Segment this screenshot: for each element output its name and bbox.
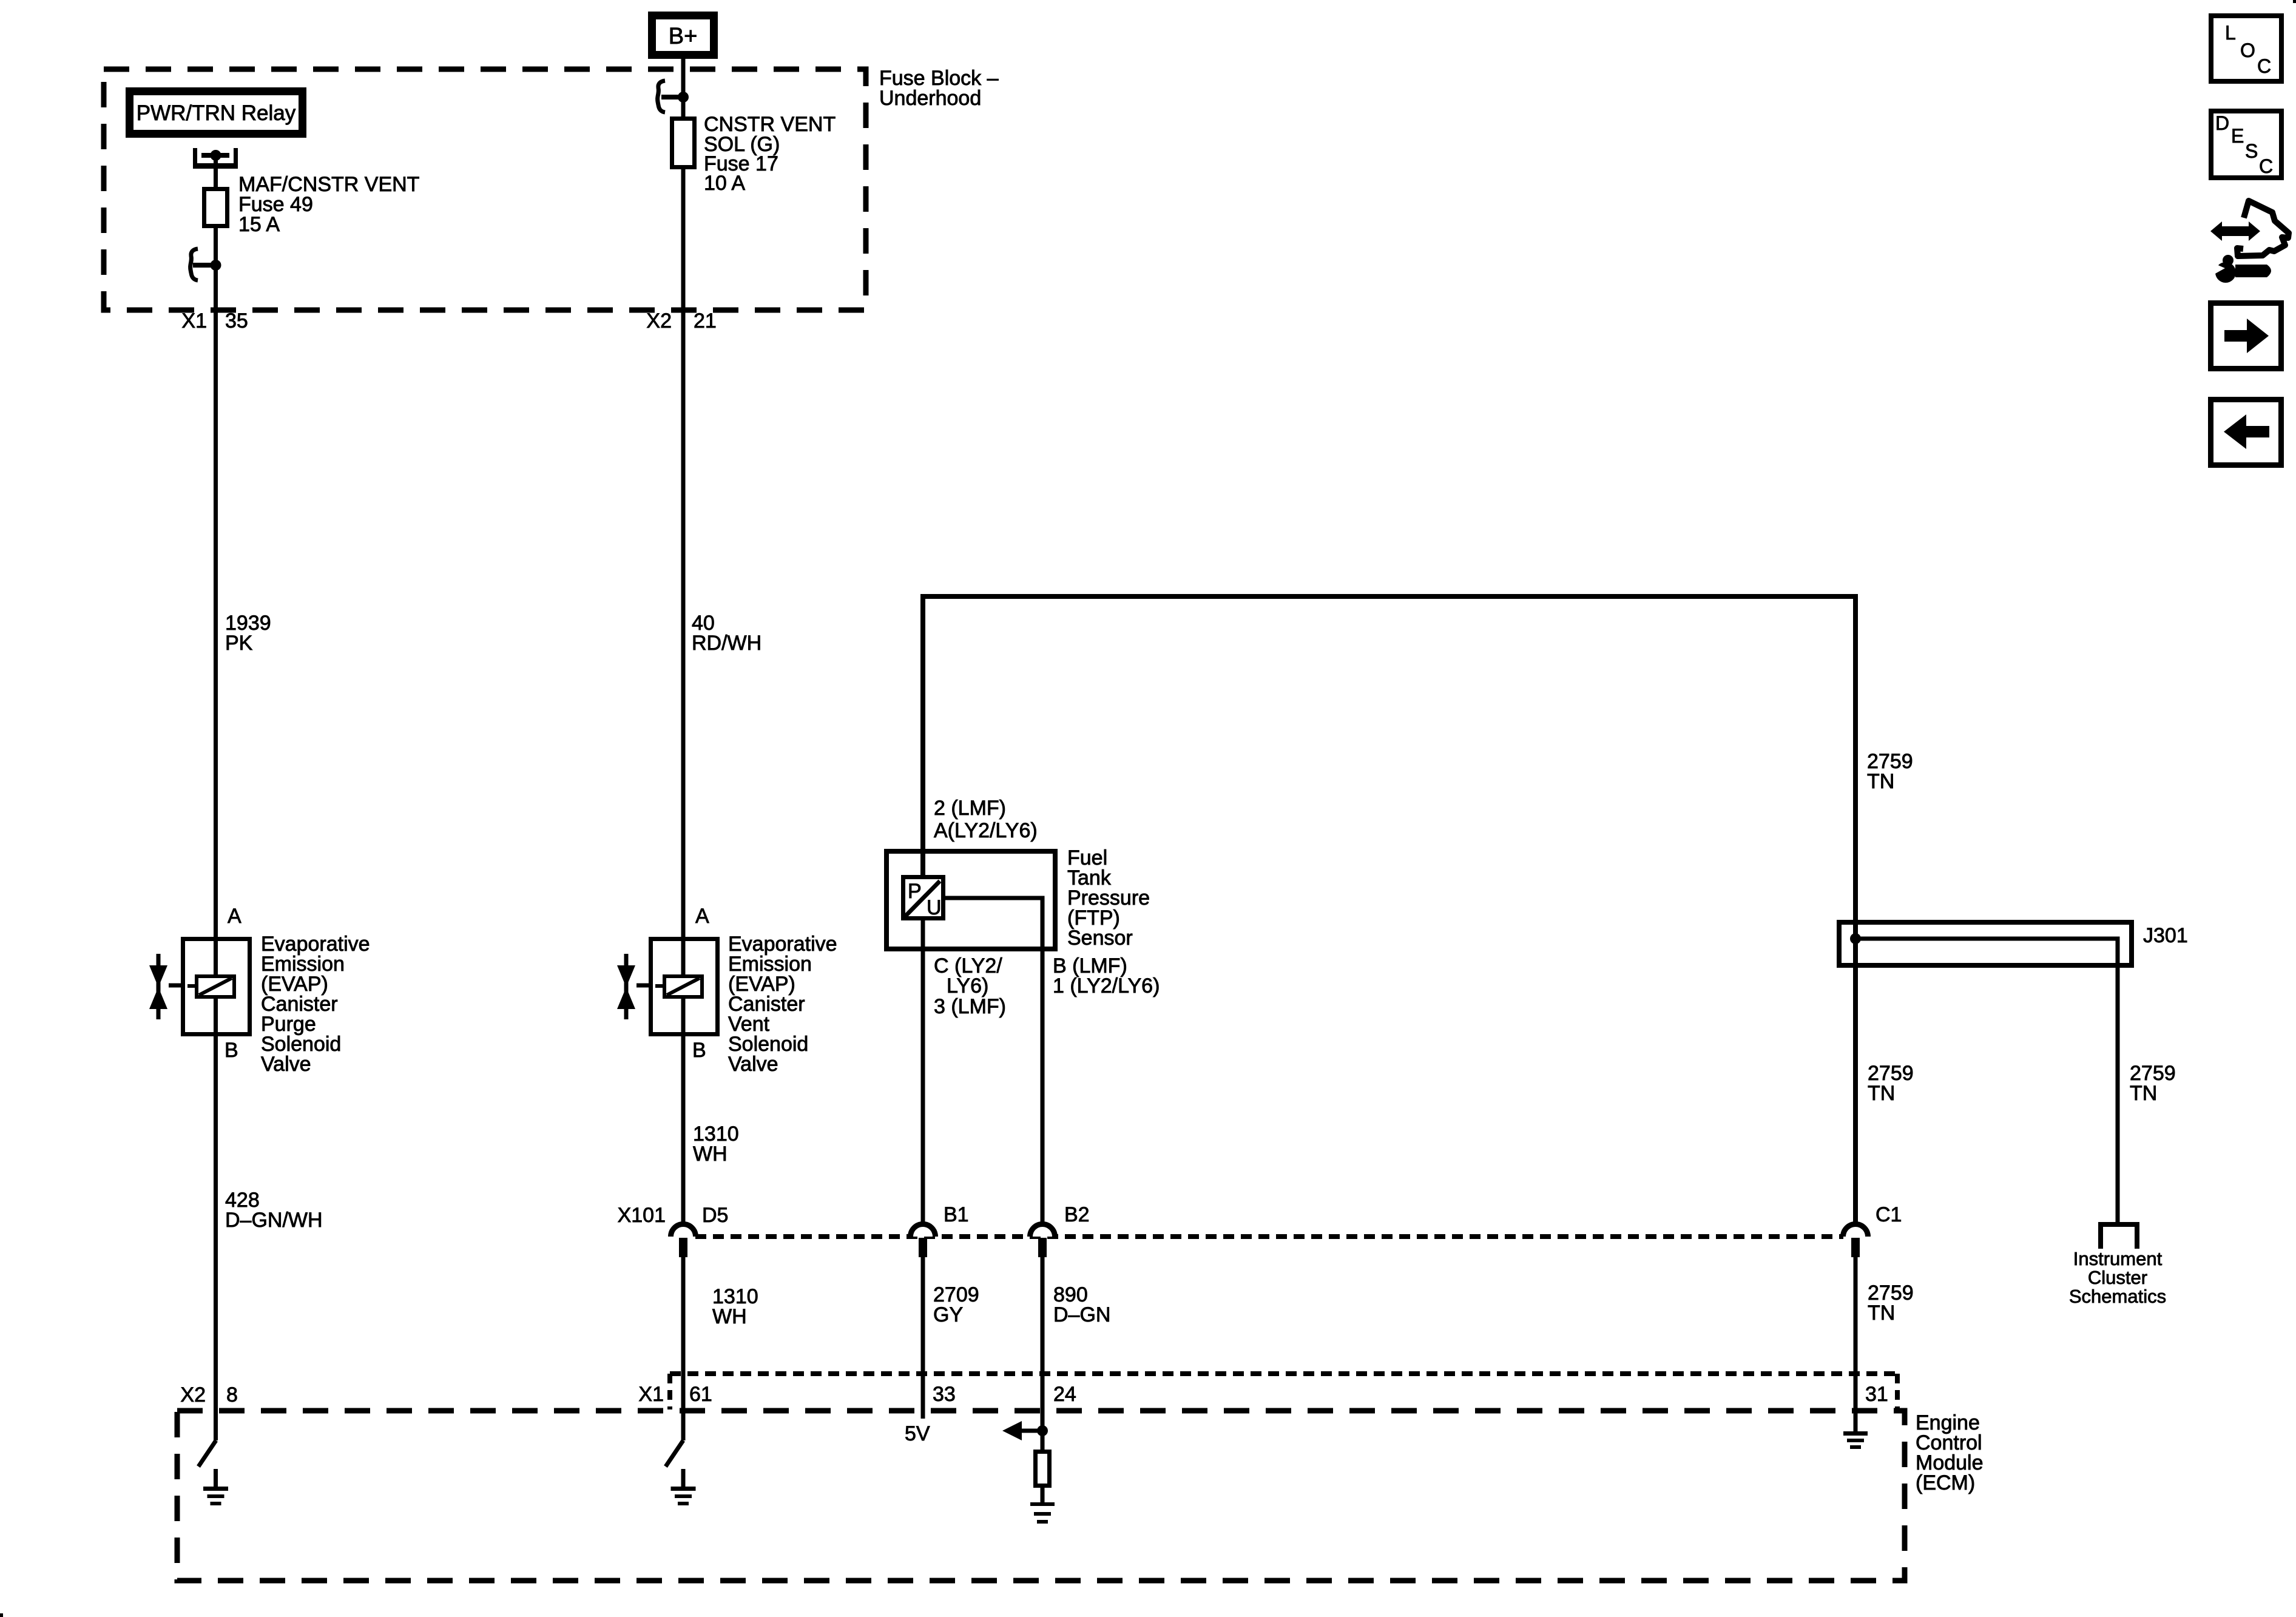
FTP connector terminal B1	[911, 1224, 936, 1257]
purge solenoid coil	[197, 976, 234, 997]
svg-text:61: 61	[689, 1383, 712, 1406]
fuse block underhood dashed box	[104, 69, 866, 310]
svg-text:B1: B1	[944, 1203, 969, 1226]
ECM X1 connector dotted right tick	[1895, 1374, 1900, 1409]
svg-text:31: 31	[1865, 1383, 1888, 1406]
svg-text:X2: X2	[646, 309, 672, 333]
svg-text:B+: B+	[669, 24, 698, 49]
purge valve pinch symbol	[149, 954, 195, 1019]
fuse 17 CNSTR VENT SOL	[672, 119, 695, 167]
ECM internal switch to ground X2-8	[198, 1440, 216, 1487]
ground symbol under resistor	[1030, 1502, 1055, 1524]
wire 1310 WH from X101 to ECM X1-61	[681, 1247, 686, 1440]
svg-text:8: 8	[226, 1383, 238, 1406]
svg-text:J301: J301	[2143, 924, 2188, 947]
B+ battery feed terminal box	[648, 12, 718, 59]
wire 40 RD/WH from fuse 17 to EVAP vent valve pin A	[681, 169, 686, 998]
svg-text:35: 35	[225, 309, 248, 333]
svg-text:X1: X1	[181, 309, 207, 333]
wiring repair icon: double arrow	[2210, 221, 2260, 241]
svg-text:Valve: Valve	[728, 1053, 778, 1076]
svg-text:TN: TN	[2130, 1082, 2157, 1105]
wire resistor to ground	[1041, 1485, 1045, 1503]
wire from B+ to CNSTR VENT fuse 17	[681, 59, 686, 116]
fuse 49 MAF/CNSTR VENT	[204, 189, 228, 226]
ground symbol under X1-61	[671, 1487, 696, 1505]
svg-text:S: S	[2245, 140, 2258, 162]
svg-text:LY6): LY6)	[947, 974, 988, 998]
forward arrow icon box	[2211, 303, 2281, 369]
engine control module dashed box	[177, 1411, 1905, 1581]
relay output lead and junction	[201, 150, 229, 189]
svg-text:TN: TN	[1868, 1082, 1895, 1105]
svg-text:5V: 5V	[905, 1422, 930, 1445]
svg-text:B: B	[225, 1039, 238, 1062]
X101 in-line connector D5	[671, 1224, 696, 1257]
svg-text:X1: X1	[638, 1383, 664, 1406]
DESC icon box	[2211, 111, 2281, 178]
switch contact at B+ fuse 17	[658, 81, 689, 112]
svg-text:C1: C1	[1876, 1203, 1902, 1226]
svg-text:GY: GY	[933, 1303, 963, 1326]
svg-text:TN: TN	[1867, 770, 1894, 793]
svg-text:X2: X2	[180, 1383, 206, 1406]
svg-text:D5: D5	[702, 1204, 728, 1227]
svg-text:WH: WH	[712, 1305, 747, 1328]
label LOC icon	[2215, 22, 2273, 177]
svg-text:D–GN: D–GN	[1053, 1303, 1110, 1326]
svg-text:P: P	[908, 880, 922, 903]
ground symbol under X1-31	[1843, 1431, 1868, 1449]
svg-text:15 A: 15 A	[238, 213, 280, 236]
svg-text:Instrument: Instrument	[2073, 1248, 2163, 1269]
svg-text:33: 33	[933, 1383, 956, 1406]
svg-text:C: C	[2259, 155, 2273, 177]
wire 890 D-GN from P/U sensor right to B2	[943, 898, 1042, 1226]
svg-text:Underhood: Underhood	[879, 87, 981, 110]
off-page connector to instrument cluster	[2098, 1222, 2139, 1249]
svg-text:Schematics: Schematics	[2069, 1286, 2166, 1307]
svg-text:C: C	[2257, 55, 2271, 77]
connector terminal C1	[1843, 1224, 1868, 1257]
svg-text:Valve: Valve	[261, 1053, 311, 1076]
svg-text:D–GN/WH: D–GN/WH	[225, 1209, 323, 1232]
svg-text:RD/WH: RD/WH	[692, 632, 761, 655]
svg-text:D: D	[2215, 112, 2229, 134]
svg-text:24: 24	[1053, 1383, 1076, 1406]
svg-text:10 A: 10 A	[704, 172, 745, 195]
svg-text:PWR/TRN Relay: PWR/TRN Relay	[137, 101, 296, 125]
wire 428 D-GN/WH from purge valve pin B to ECM X2-8	[214, 997, 218, 1440]
wire 1310 WH from vent valve pin B to X101 D5	[681, 997, 686, 1226]
svg-text:(ECM): (ECM)	[1916, 1471, 1975, 1494]
back arrow icon box	[2211, 400, 2281, 465]
EVAP canister purge solenoid valve box	[183, 939, 250, 1035]
wire 890 D-GN from B2 to ECM X1-24	[1041, 1247, 1045, 1451]
svg-text:WH: WH	[693, 1143, 728, 1166]
relay switch contact at X1-35	[191, 249, 221, 280]
wiring repair icon: wrench	[2211, 255, 2271, 283]
svg-text:X101: X101	[618, 1204, 666, 1227]
svg-text:TN: TN	[1868, 1301, 1895, 1325]
wire 2759 TN main run: FTP sensor up, across, down to J301 and C1	[923, 596, 1855, 1226]
ECM X1 connector dotted row	[670, 1371, 1897, 1376]
PWR/TRN Relay box	[130, 92, 303, 134]
svg-text:Cluster: Cluster	[2088, 1267, 2147, 1288]
J301 splice pack box	[1839, 922, 2132, 965]
LOC icon box	[2211, 16, 2281, 81]
ECM X1 connector dotted left tick	[667, 1374, 672, 1409]
wire 2759 TN inside J301 to instrument cluster off-page	[1855, 939, 2118, 1224]
svg-text:PK: PK	[225, 632, 253, 655]
FTP connector terminal B2	[1030, 1224, 1055, 1257]
EVAP canister vent solenoid valve box	[651, 939, 718, 1035]
wiring repair icon: harness outline	[2237, 201, 2289, 256]
ECM internal switch to ground X1-61	[666, 1440, 683, 1487]
fuel tank pressure FTP sensor box	[886, 851, 1055, 949]
ECM internal pull-up: junction dot at pin 24	[1037, 1425, 1048, 1436]
svg-text:U: U	[927, 896, 942, 919]
vent valve pinch symbol	[617, 954, 663, 1019]
ground symbol under X2-8	[203, 1487, 228, 1505]
svg-text:O: O	[2240, 39, 2255, 61]
svg-text:B: B	[692, 1039, 706, 1062]
resistor inside ECM	[1036, 1452, 1050, 1486]
svg-text:L: L	[2225, 22, 2236, 44]
svg-text:3 (LMF): 3 (LMF)	[934, 995, 1006, 1018]
wire 2759 TN from C1 to ECM X1-31 ground	[1854, 1247, 1858, 1433]
wire 2709 GY from P/U sensor to B1	[921, 918, 925, 1226]
svg-text:A: A	[228, 905, 241, 928]
svg-text:A: A	[695, 905, 709, 928]
vent solenoid coil	[664, 976, 702, 997]
svg-text:1 (LY2/LY6): 1 (LY2/LY6)	[1053, 974, 1160, 998]
svg-text:E: E	[2231, 125, 2244, 147]
svg-text:21: 21	[694, 309, 717, 333]
svg-text:B2: B2	[1064, 1203, 1090, 1226]
relay output terminal cup	[193, 148, 238, 169]
wire 1939 PK from PWR/TRN relay fuse to EVAP purge valve pin A	[214, 227, 218, 998]
P/U pressure transducer symbol	[903, 877, 944, 919]
svg-text:A(LY2/LY6): A(LY2/LY6)	[934, 819, 1038, 842]
wire 2709 GY from B1 to ECM X1-33 5V	[921, 1247, 925, 1419]
signal arrow at pin 24	[1002, 1421, 1042, 1440]
svg-text:2 (LMF): 2 (LMF)	[934, 797, 1006, 820]
J301 junction dot	[1850, 933, 1861, 944]
svg-text:Sensor: Sensor	[1067, 927, 1133, 950]
in-line connector row X101/B1/B2/C1	[695, 1234, 1843, 1239]
